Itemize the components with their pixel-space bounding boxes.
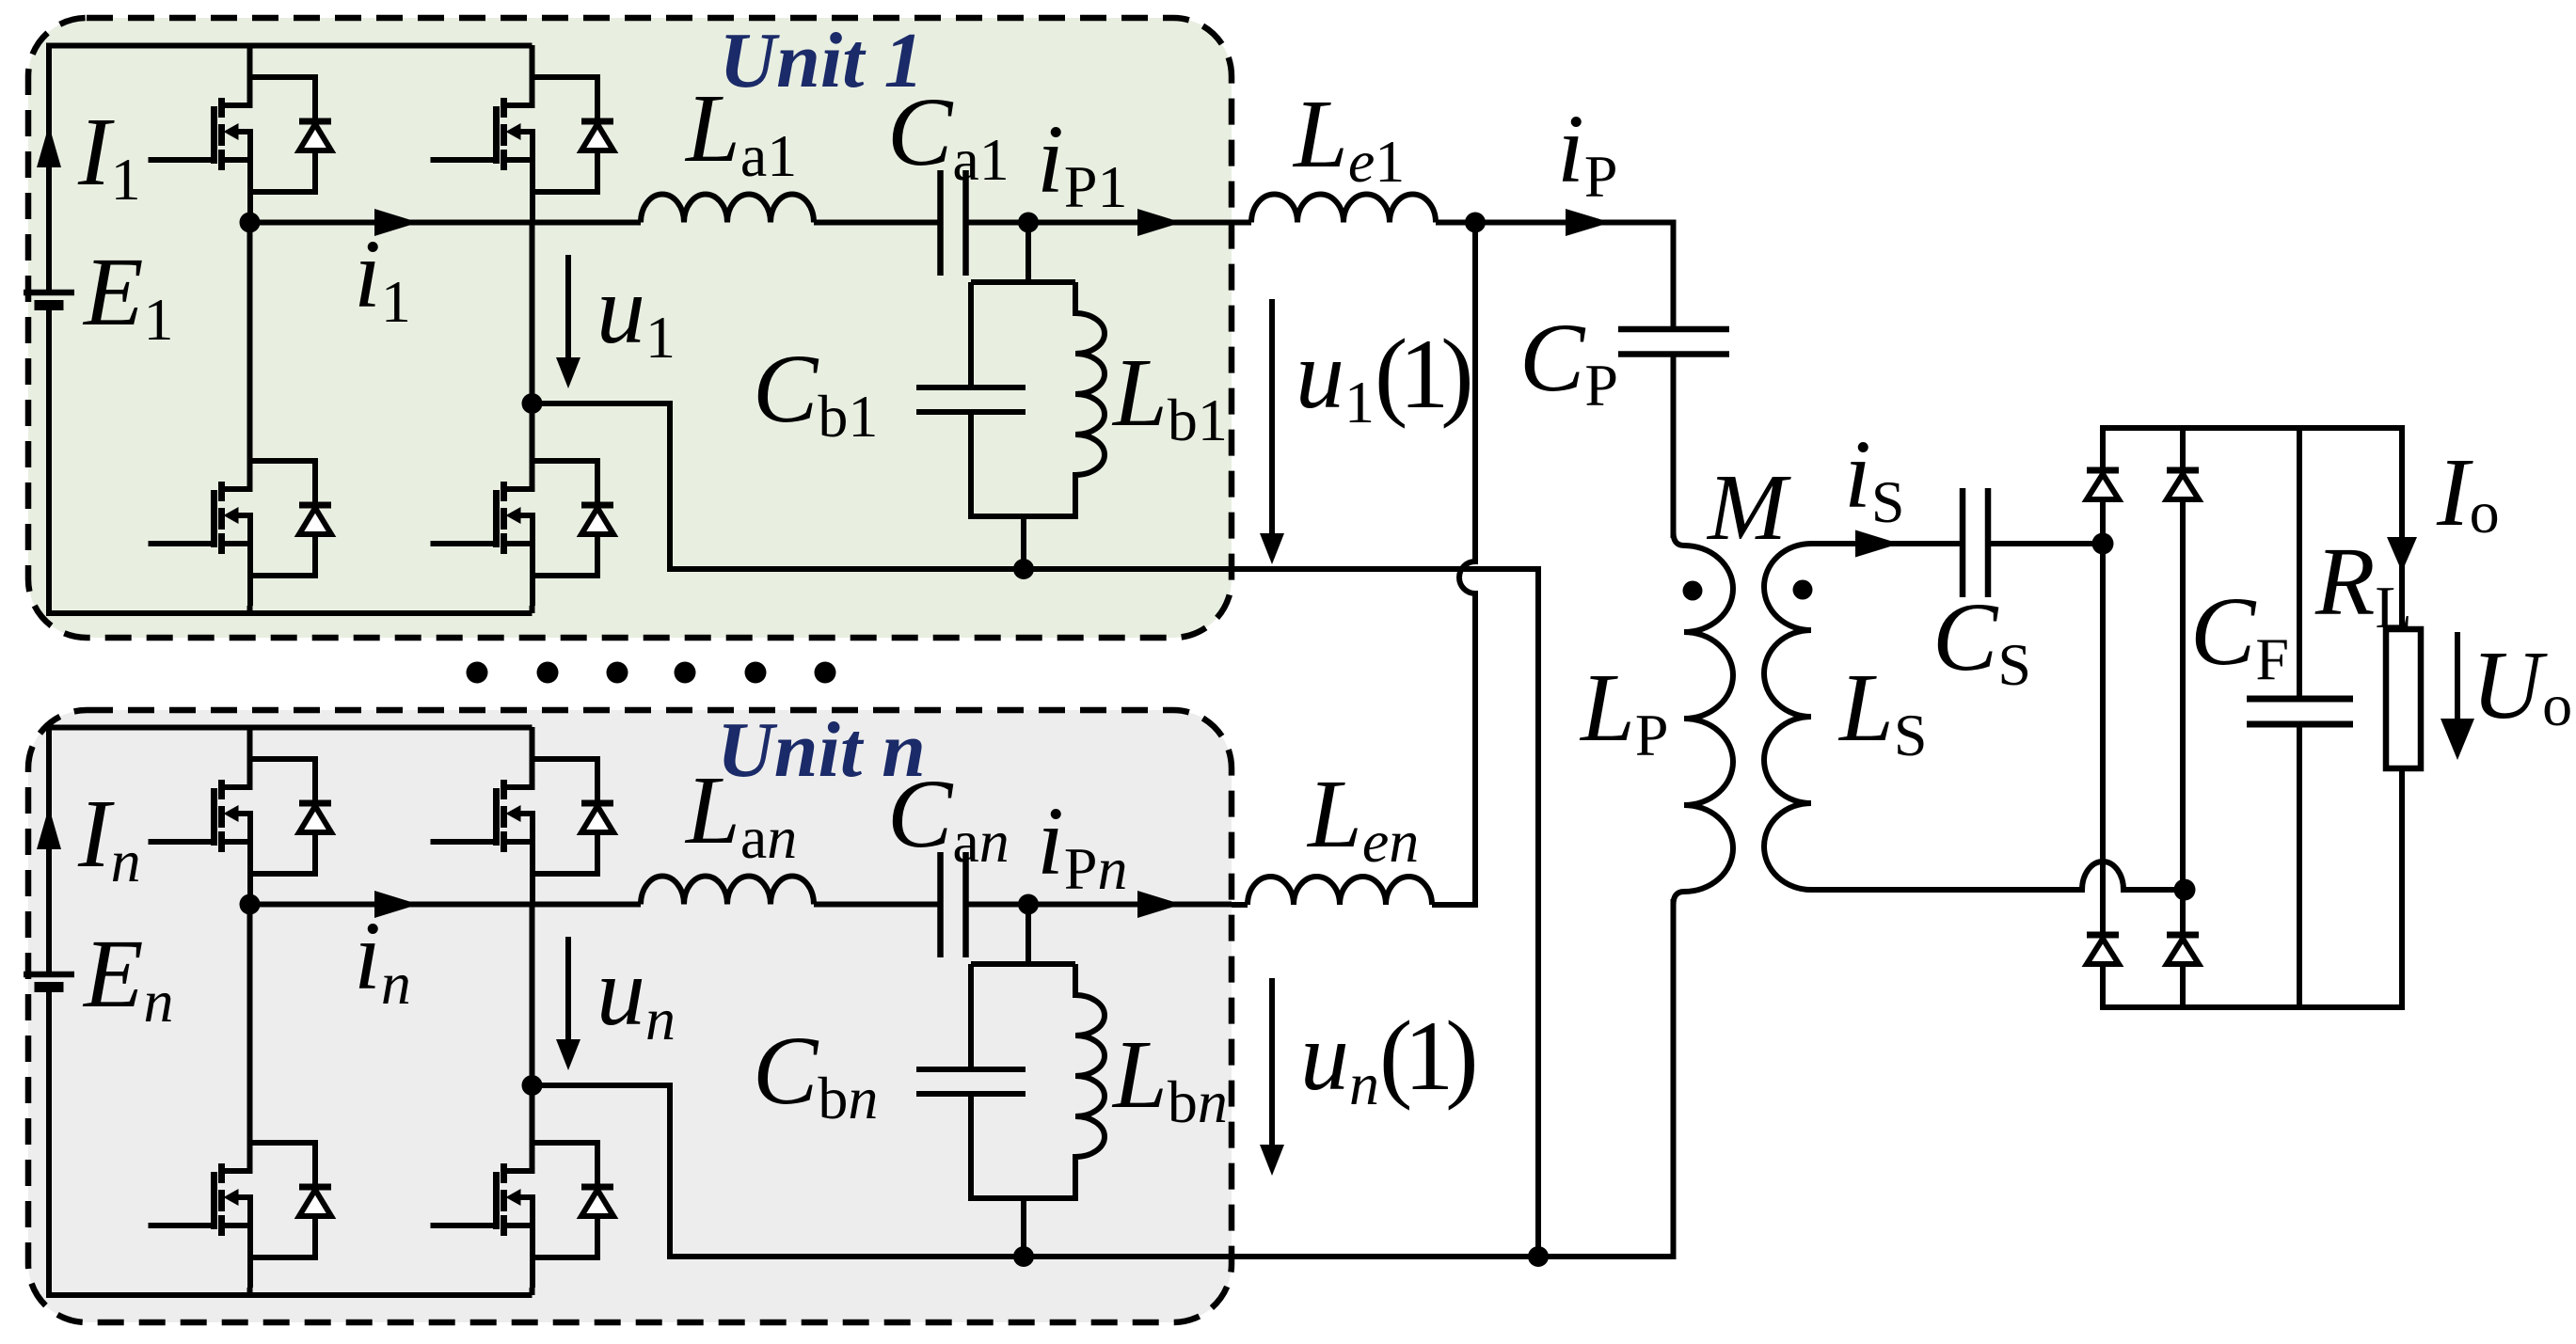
wire bridge bottom rail <box>2103 1004 2402 1010</box>
svg-text:u1(1): u1(1) <box>1296 319 1470 435</box>
wire bridge top rail <box>2103 425 2402 431</box>
transistor Q6 (upper-right MOSFET) <box>431 727 614 904</box>
node F (return junction) <box>1528 1246 1549 1267</box>
Unit n shaded box <box>28 710 1232 1322</box>
wire right leg mid <box>530 904 535 1111</box>
node Cn (tank bottom) <box>1013 1246 1034 1267</box>
node Bn (Can output) <box>1018 894 1039 915</box>
inductor Len <box>1248 877 1432 905</box>
wire CF branch lower <box>2297 724 2302 1007</box>
arrow iP <box>1566 209 1611 236</box>
wire bottom rail <box>49 610 533 616</box>
transistor Q7 (lower-left MOSFET) <box>149 1111 332 1288</box>
wire LP bottom lead <box>1671 899 1677 1257</box>
wire i1 output <box>250 220 642 226</box>
transistor Q8 (lower-right MOSFET) <box>431 1111 614 1288</box>
capacitor Cbn <box>916 964 1075 1201</box>
arrow Uo <box>2455 632 2460 724</box>
transistor Q1 (upper-left MOSFET) <box>149 45 332 222</box>
wire bottom rail <box>49 1292 533 1298</box>
wire left leg mid <box>247 904 253 1111</box>
arrow iPn <box>1137 891 1182 918</box>
node C (tank bottom) <box>1013 559 1034 579</box>
wire Le1 to iP corner <box>1436 223 1674 330</box>
wire CF branch upper <box>2297 428 2302 699</box>
polarity dot LP <box>1683 581 1703 601</box>
arrow in <box>374 891 419 918</box>
arrow I1 <box>37 125 61 167</box>
wire u1 output step <box>533 403 1232 569</box>
wire tank bottom stem <box>1021 1198 1026 1257</box>
wire summing vertical with hop <box>1432 223 1475 906</box>
wire Len to box edge <box>1232 902 1248 908</box>
wire Lan to Can <box>814 902 941 908</box>
svg-text:M: M <box>1706 454 1791 560</box>
wire box edge to Le1 <box>1232 220 1251 226</box>
wire bridge second leg <box>2180 425 2186 1010</box>
node D (right leg midpoint) <box>522 393 543 414</box>
capacitor CF <box>2247 699 2353 724</box>
wire secondary return with hop <box>1811 862 2185 890</box>
node Dn (right leg midpoint) <box>522 1075 543 1096</box>
capacitor Ca1 <box>941 170 966 276</box>
inductor LS (secondary coil) <box>1764 544 1811 890</box>
wire left leg mid <box>247 222 253 429</box>
arrow u1 <box>565 255 571 357</box>
wire unit1 return to bottom <box>1024 569 1538 1257</box>
battery En <box>24 972 74 978</box>
capacitor Can <box>941 852 966 957</box>
inductor Lb1 <box>1075 282 1105 519</box>
capacitor Cb1 <box>916 282 1075 519</box>
transistor Q5 (upper-left MOSFET) <box>149 727 332 904</box>
diode D2 <box>2167 470 2199 499</box>
wire lower legs to rail <box>250 1288 533 1295</box>
wire node B down to tank <box>1026 223 1031 286</box>
wire bridge left leg <box>2100 425 2106 1010</box>
wire iS line <box>1811 541 1963 546</box>
svg-text:Unit 1: Unit 1 <box>719 17 923 104</box>
arrow un <box>565 937 571 1039</box>
diode D1 <box>2087 470 2119 499</box>
wire tank bottom stem <box>1021 516 1026 569</box>
transistor Q3 (lower-left MOSFET) <box>149 429 332 606</box>
wire load branch lower <box>2399 768 2405 1010</box>
polarity dot LS <box>1793 580 1813 600</box>
inductor LP (primary coil) <box>1674 532 1734 905</box>
wire top rail <box>49 725 533 731</box>
battery E1 <box>24 290 74 296</box>
wire in output <box>250 902 642 908</box>
wire lower legs to rail <box>250 606 533 613</box>
wire un output step <box>533 1085 1025 1257</box>
arrow iP1 <box>1137 209 1182 236</box>
inductor Lan <box>641 877 814 905</box>
wire load branch upper <box>2399 425 2405 631</box>
wire top rail <box>49 43 533 49</box>
node G (bridge input top) <box>2092 533 2114 555</box>
wire Can to box edge <box>966 902 1232 908</box>
resistor RL <box>2386 629 2421 768</box>
wire CP to LP <box>1671 355 1677 539</box>
wire La1 to Ca1 <box>814 220 941 226</box>
Unit 1 shaded box <box>28 18 1232 638</box>
ellipsis dots between units <box>467 662 836 684</box>
wire CS to bridge <box>1988 541 2103 546</box>
svg-text:un(1): un(1) <box>1300 1001 1474 1117</box>
arrow iS <box>1855 530 1900 558</box>
node B (Ca1 output) <box>1018 213 1039 233</box>
diode D3 <box>2087 935 2119 964</box>
capacitor CP <box>1618 329 1729 355</box>
arrow u1(1) <box>1269 299 1275 533</box>
arrow un(1) <box>1269 978 1275 1145</box>
transistor Q4 (lower-right MOSFET) <box>431 429 614 606</box>
inductor Le1 <box>1251 195 1436 223</box>
inductor Lbn <box>1075 964 1105 1201</box>
diode D4 <box>2167 935 2199 964</box>
transistor Q2 (upper-right MOSFET) <box>431 45 614 222</box>
node E (summing node) <box>1465 213 1486 233</box>
wire left rail upper <box>46 725 52 975</box>
wire left rail lower <box>46 306 52 617</box>
wire bottom return <box>1024 1254 1677 1259</box>
arrow Io <box>2387 537 2417 572</box>
wire Ca1 to box edge <box>966 220 1232 226</box>
wire left rail upper <box>46 43 52 293</box>
wire node Bn down to tank <box>1026 905 1031 968</box>
node H (bridge input bottom) <box>2174 879 2196 901</box>
node An (left leg midpoint) <box>240 894 261 915</box>
wire left rail lower <box>46 988 52 1299</box>
inductor La1 <box>641 195 814 223</box>
node A (left leg midpoint) <box>240 213 261 233</box>
wire right leg mid <box>530 222 535 429</box>
arrow i1 <box>374 209 419 236</box>
svg-text:Unit n: Unit n <box>717 706 926 794</box>
arrow In <box>37 807 61 849</box>
capacitor CS <box>1963 488 1988 597</box>
